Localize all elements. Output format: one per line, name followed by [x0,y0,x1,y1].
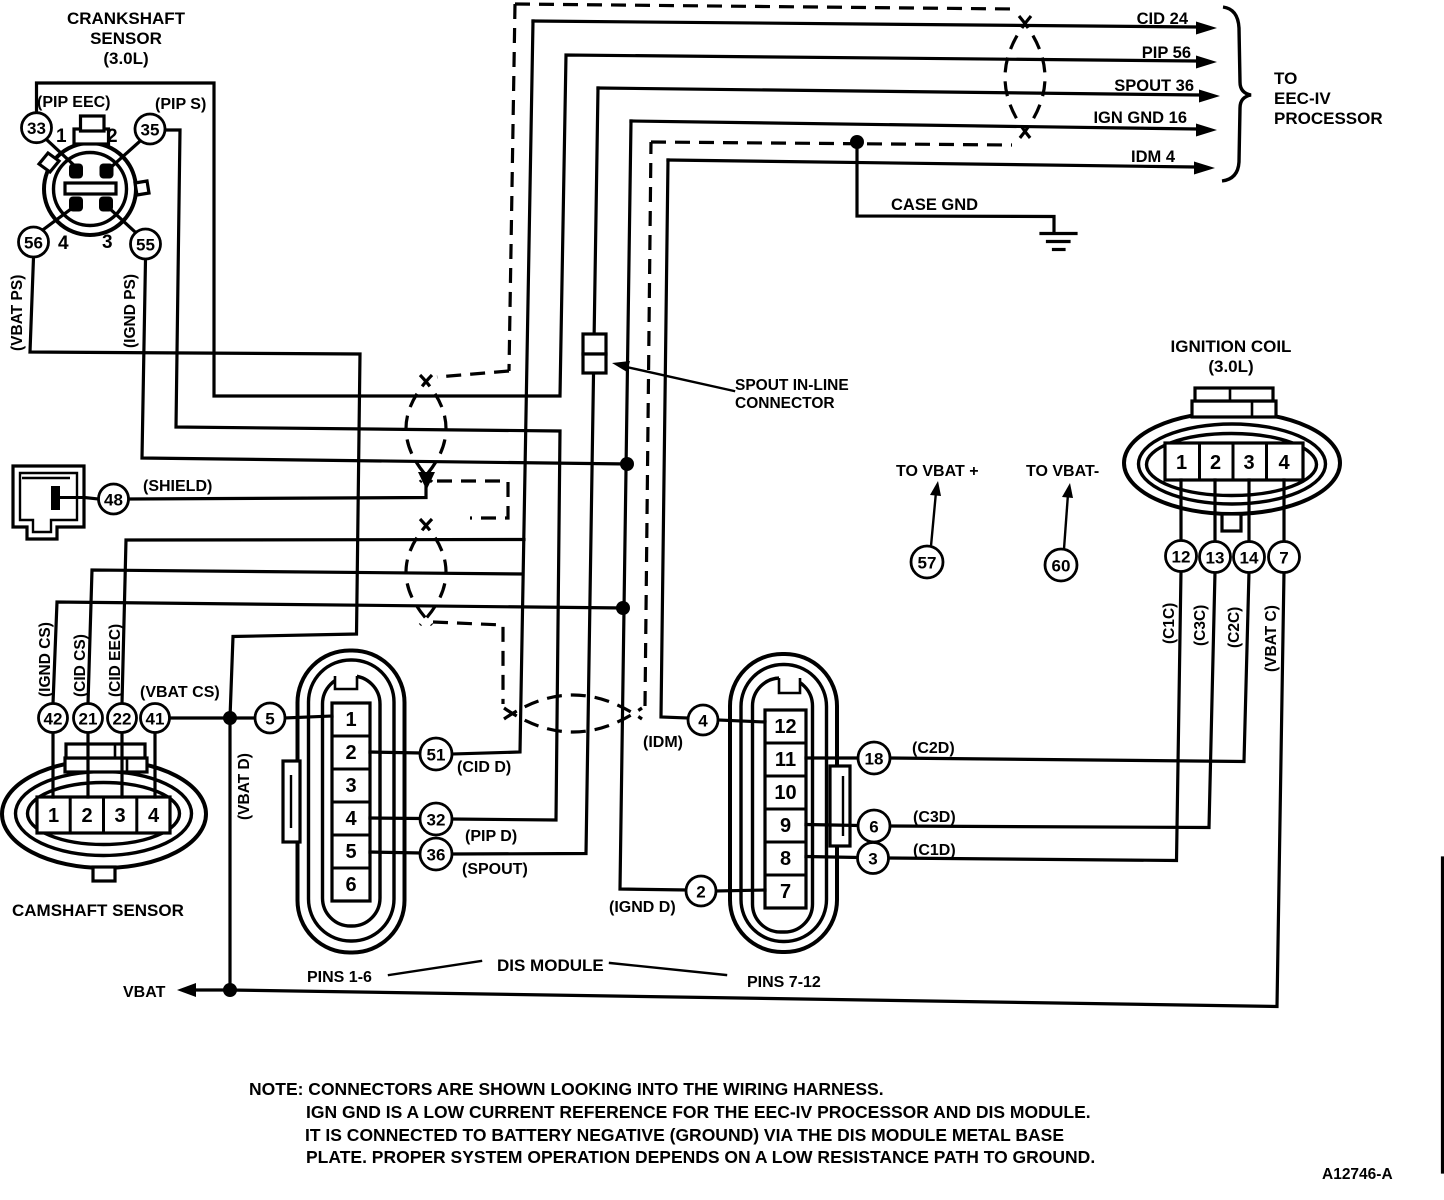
svg-text:2: 2 [81,805,92,827]
wire: SPOUT vertical through in-line connector to DIS pin 5 [452,88,598,854]
wire: IDM 4 line to EEC [668,160,1194,167]
svg-text:CONNECTOR: CONNECTOR [735,395,835,412]
DIS module left side tab [283,761,300,842]
svg-text:PINS 1-6: PINS 1-6 [307,969,372,986]
svg-text:CRANKSHAFT: CRANKSHAFT [67,9,186,28]
svg-text:CASE GND: CASE GND [891,196,978,214]
crankshaft sensor left lug [39,153,59,172]
wire: IGND CS branch from camshaft [53,602,623,704]
svg-text:12: 12 [1172,547,1191,566]
label: CRANKSHAFT SENSOR (3.0L) [67,9,186,68]
camshaft sensor bottom notch [93,867,115,881]
circuit circle 21 [74,704,103,733]
svg-text:TO: TO [1274,69,1297,88]
wire: PIP S from crank pin 2 [165,130,560,820]
svg-text:PINS 7-12: PINS 7-12 [747,974,821,991]
svg-text:PLATE. PROPER SYSTEM OPERATION: PLATE. PROPER SYSTEM OPERATION DEPENDS O… [306,1147,1095,1167]
svg-text:6: 6 [345,874,356,896]
leader: DIS MODULE to PINS 7-12 [610,963,726,975]
shield drain tip (solid) [418,472,435,490]
note paragraph [249,1079,1095,1167]
svg-text:32: 32 [427,810,446,829]
wire: VBAT arrow stub [194,988,230,991]
leader arrow: TO VBAT+ [930,481,941,546]
circuit circle 35 [135,114,165,144]
svg-text:(CID CS): (CID CS) [72,634,89,697]
arrowhead: PIP 56 into EEC [1196,56,1217,69]
wire: camshaft pin1 to circle 42 [51,733,54,798]
leader: SPOUT in-line connector callout [612,361,734,391]
svg-text:(VBAT CS): (VBAT CS) [140,684,220,701]
circuit circle 3 [858,843,889,874]
svg-text:EEC-IV: EEC-IV [1274,89,1331,108]
circuit circle 13 [1200,542,1231,573]
arrowhead: IDM 4 into EEC [1194,162,1215,175]
wire: DIS pin 2 to circle 51 [370,752,420,753]
crankshaft sensor key tab top [74,116,109,144]
svg-text:(VBAT PS): (VBAT PS) [9,275,26,351]
crankshaft sensor pin 1 contact [69,164,83,179]
wire: C2D circle 18 to coil pin 3 [890,572,1249,762]
svg-text:7: 7 [1279,548,1288,567]
circuit circle 36 [420,838,452,870]
svg-text:2: 2 [345,742,356,764]
wire: VBAT CS circle 41 to junction [170,716,224,719]
junction: shield to case ground [850,135,864,149]
dashed shield: top run to EEC bundle [515,4,1014,9]
svg-text:(C3C): (C3C) [1192,605,1209,646]
svg-text:(C2D): (C2D) [912,740,955,757]
wire: IGN GND vertical to DIS pin 7 [620,121,686,890]
svg-text:8: 8 [780,848,791,870]
svg-text:(C1D): (C1D) [913,842,956,859]
svg-text:1: 1 [48,805,59,827]
svg-text:(IDM): (IDM) [643,734,683,751]
dashed shield: run from ellipse 2 to ellipse 3 [433,622,503,704]
svg-text:1: 1 [1176,452,1187,474]
wire: DIS pin 11 to circle 18 [806,756,858,759]
svg-text:TO VBAT-: TO VBAT- [1026,463,1099,480]
svg-text:33: 33 [27,119,46,138]
circuit circle 57 [911,546,943,578]
circuit circle 51 [420,738,452,770]
leader: crank pin4 to circle 56 [44,206,75,229]
svg-text:3: 3 [102,232,113,253]
svg-text:3: 3 [114,805,125,827]
wire: coil pin 3 stub to circle 14 [1247,480,1250,542]
svg-text:(PIP S): (PIP S) [155,96,206,113]
arrowhead: CID 24 into EEC [1196,22,1217,35]
svg-text:12: 12 [774,716,796,738]
wire: VBAT rail to ignition coil pin 4 [230,572,1284,1007]
svg-text:(CID EEC): (CID EEC) [107,624,124,697]
DIS module right side tab [830,766,850,846]
dashed shield: horizontal run to EEC bundle bottom [651,142,1012,145]
svg-text:9: 9 [780,815,791,837]
wire: C3D circle 6 to coil pin 2 [890,572,1215,828]
svg-text:SENSOR: SENSOR [90,29,162,48]
wire: CASE GND from shield junction to ground [857,142,1054,233]
svg-text:4: 4 [58,233,69,254]
arrowhead: SPOUT 36 into EEC [1199,90,1220,103]
svg-text:(CID D): (CID D) [457,759,511,776]
svg-text:SPOUT 36: SPOUT 36 [1114,77,1194,95]
wire: VBAT D vertical down to VBAT rail [228,718,231,990]
wire: junction to circle 5 [237,716,255,719]
label: TO EEC-IV PROCESSOR [1274,69,1383,128]
circuit circle 60 [1045,549,1077,581]
svg-text:3: 3 [1243,452,1254,474]
wire: coil pin 4 stub to circle 7 [1282,480,1285,542]
crankshaft sensor slot [65,183,116,194]
DIS module pin boxes 7-12 [765,710,806,908]
svg-text:4: 4 [698,711,708,730]
leader arrow: TO VBAT- [1062,483,1073,549]
circuit circle 14 [1234,542,1265,573]
svg-text:21: 21 [79,709,98,728]
wire: VBAT PS from crank pin 4 [30,258,360,719]
svg-text:2: 2 [696,882,705,901]
svg-text:(3.0L): (3.0L) [1208,357,1253,376]
circuit circle 33 [22,113,52,143]
wire: CID EEC branch from camshaft [122,540,524,704]
crankshaft sensor pin 2 contact [100,164,114,179]
svg-text:(3.0L): (3.0L) [103,49,148,68]
circuit circle 6 [858,810,890,842]
label: SPOUT IN-LINE CONNECTOR [735,377,849,412]
ignition coil pin row boxes 1-4 [1165,443,1303,480]
wire: DIS pin 9 to circle 6 [806,825,858,826]
camshaft sensor top tab [65,744,147,772]
circuit circle 48 [99,484,129,514]
brace to EEC-IV processor [1222,7,1251,181]
crankshaft sensor pin 4 contact [69,197,83,212]
circuit circle 32 [420,803,452,835]
wire: coil pin 2 stub to circle 13 [1213,480,1216,542]
svg-text:60: 60 [1052,556,1071,575]
ignition coil connector body [1124,412,1340,514]
wire: camshaft pin4 to circle 41 [153,733,156,798]
svg-text:PIP 56: PIP 56 [1142,44,1191,62]
wire: DIS pin 4 to PIP circle 32 [370,816,420,820]
svg-text:2: 2 [107,126,118,147]
wire: camshaft pin3 to circle 22 [120,733,123,798]
circuit circle 41 [141,704,170,733]
svg-text:7: 7 [780,881,791,903]
camshaft sensor connector body [2,760,206,868]
svg-text:35: 35 [141,120,160,139]
wire: IGN GND 16 line to EEC [631,121,1196,129]
svg-text:(SPOUT): (SPOUT) [462,861,528,878]
junction: IGND CS tap [616,601,630,615]
circuit circle 22 [108,704,137,733]
wire: DIS pin 7 from circle 2 [716,890,765,891]
svg-text:(IGND D): (IGND D) [609,899,676,916]
wire: coil pin 1 stub to circle 12 [1179,480,1182,541]
svg-text:4: 4 [148,805,160,827]
svg-text:A12746-A: A12746-A [1322,1166,1393,1183]
dashed shield: jog to twist ellipse 1 [437,371,509,377]
wire: PIP EEC from crank pin 1 up and over [37,55,1197,396]
DIS module pin boxes 1-6 [332,703,370,901]
svg-text:DIS MODULE: DIS MODULE [497,956,604,975]
crankshaft sensor connector body [44,143,136,235]
svg-text:10: 10 [774,782,796,804]
svg-text:56: 56 [24,233,43,252]
svg-text:(SHIELD): (SHIELD) [143,478,212,495]
svg-text:(VBAT C): (VBAT C) [1263,605,1280,672]
dashed twist ellipse 1 [406,375,446,482]
junction: VBAT CS tap [223,711,237,725]
ignition coil bottom notch [1222,514,1241,531]
leader: crank pin1 to circle 33 [46,139,78,169]
svg-text:41: 41 [146,709,165,728]
svg-text:11: 11 [775,749,796,771]
circuit circle 12 [1166,541,1197,572]
svg-text:VBAT: VBAT [123,984,166,1001]
svg-text:(PIP EEC): (PIP EEC) [37,94,111,111]
svg-text:IDM 4: IDM 4 [1131,148,1176,166]
leader: crank pin3 to circle 55 [108,207,134,231]
svg-text:3: 3 [868,849,877,868]
svg-text:NOTE: CONNECTORS ARE SHOWN LOO: NOTE: CONNECTORS ARE SHOWN LOOKING INTO … [249,1079,884,1099]
wire: DIS pin 5 to circle 36 [370,852,420,853]
arrowhead: VBAT left arrow [177,983,196,997]
circuit circle 5 [255,703,285,733]
leader: crank pin2 to circle 35 [109,142,139,169]
junction: VBAT rail tap [223,983,237,997]
dashed EEC cable bundle ellipse [1005,16,1045,139]
svg-text:(IGND CS): (IGND CS) [37,622,54,697]
circuit circle 7 [1269,542,1300,573]
crankshaft sensor pin 3 contact [99,197,113,212]
svg-text:(C2C): (C2C) [1226,607,1243,648]
wire: circle 5 to DIS pin 1 [285,716,332,718]
svg-text:4: 4 [1278,452,1290,474]
wire: CID CS branch from camshaft [88,570,523,704]
svg-text:(VBAT D): (VBAT D) [236,753,253,820]
wire: camshaft pin2 to circle 21 [86,733,89,798]
wire: unterminated C1D branch at right edge [1441,858,1444,1172]
svg-text:IGNITION COIL: IGNITION COIL [1171,337,1292,356]
svg-text:36: 36 [427,845,446,864]
svg-text:(C3D): (C3D) [913,809,956,826]
dashed shield: hook between ellipse 1 and 2 [437,481,508,518]
junction: IGND PS tap [620,457,634,471]
svg-text:6: 6 [869,817,878,836]
wire: shield drain from circle 48 [84,498,99,500]
svg-text:TO VBAT +: TO VBAT + [896,463,979,480]
circuit circle 18 [858,742,890,774]
svg-text:PROCESSOR: PROCESSOR [1274,109,1383,128]
wire: DIS pin 8 to circle 3 [806,857,858,858]
wire: shield circle 48 to shield ellipse [129,487,427,499]
svg-text:13: 13 [1206,548,1225,567]
circuit circle 2 [686,876,716,906]
arrowhead: IGN GND 16 into EEC [1196,124,1217,137]
svg-text:CID 24: CID 24 [1137,10,1189,28]
DIS module connector pins 1-6 body [298,651,405,953]
circuit circle 55 [131,229,161,259]
svg-text:2: 2 [1210,452,1221,474]
svg-text:IT IS CONNECTED TO BATTERY NEG: IT IS CONNECTED TO BATTERY NEGATIVE (GRO… [305,1125,1064,1145]
dashed twist ellipse 2 [406,519,446,625]
svg-text:18: 18 [865,749,884,768]
ground symbol: CASE GND [1041,234,1076,250]
svg-text:1: 1 [56,126,67,147]
dashed twist ellipse 3 [504,695,642,732]
svg-text:48: 48 [104,490,123,509]
ignition coil top tab [1192,388,1276,417]
svg-text:CAMSHAFT SENSOR: CAMSHAFT SENSOR [12,901,184,920]
wire: IDM vertical to DIS pin 12 [661,160,688,718]
svg-text:55: 55 [136,235,155,254]
svg-text:51: 51 [427,745,446,764]
circuit circle 56 [19,227,49,257]
svg-text:5: 5 [345,841,356,863]
svg-text:1: 1 [345,709,356,731]
svg-text:SPOUT IN-LINE: SPOUT IN-LINE [735,377,849,394]
wire: C1D circle 3 to coil pin 1 [889,571,1182,861]
DIS module connector pins 7-12 body [730,654,837,952]
svg-text:57: 57 [918,553,937,572]
wire: CID 24 line to EEC [533,21,1196,27]
wire: IGND PS from crank pin 3 [142,260,627,465]
svg-text:22: 22 [113,709,132,728]
wire: SPOUT 36 line to EEC [598,88,1199,95]
dashed shield: right vertical run [645,142,651,706]
circuit circle 42 [39,704,68,733]
svg-text:42: 42 [44,709,63,728]
svg-text:5: 5 [265,709,274,728]
camshaft sensor pin row boxes 1-4 [37,797,170,833]
svg-text:IGN GND IS A LOW CURRENT REFER: IGN GND IS A LOW CURRENT REFERENCE FOR T… [306,1102,1091,1122]
dashed shield: left vertical run [509,4,515,371]
label: IGNITION COIL (3.0L) [1171,337,1292,376]
svg-text:14: 14 [1240,548,1259,567]
svg-text:IGN GND 16: IGN GND 16 [1093,109,1187,127]
crankshaft sensor right lug [135,181,149,195]
SPOUT in-line connector [583,334,606,373]
svg-text:(IGND PS): (IGND PS) [122,274,139,348]
svg-text:3: 3 [345,775,356,797]
circuit circle 4 [688,705,718,735]
leader: PINS 1-6 to DIS MODULE [389,961,481,975]
svg-text:4: 4 [345,808,357,830]
shield connector symbol [13,466,84,539]
svg-text:(C1C): (C1C) [1161,603,1178,644]
wire: DIS pin 12 from circle 4 [718,720,765,722]
svg-text:(PIP D): (PIP D) [465,828,517,845]
wire: CID vertical EEC to DIS pin 2 [452,21,533,754]
